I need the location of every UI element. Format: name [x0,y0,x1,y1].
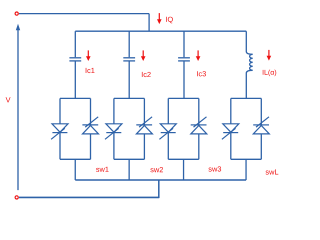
switch sw2: bottom rail [114,158,144,160]
label Ic2 [142,72,151,77]
current arrow IL [267,50,272,61]
thyristor swLb (reverse) [253,98,269,159]
capacitor C2 [123,31,135,98]
current arrow Ic2 [141,50,146,61]
wire: bottom return [19,196,159,198]
thyristor sw3a (forward) [159,98,176,159]
switch swL: bottom rail [231,158,261,160]
switch swL: stub to bus [245,159,247,180]
switch sw3: stub to bus [183,159,185,180]
node: top input terminal [15,12,18,15]
switch sw1: top rail [60,97,91,99]
switch sw1: bottom rail [60,158,91,160]
capacitor C3 [178,31,190,98]
wire: top feeder [19,13,149,15]
current arrow IQ [157,13,162,24]
source V arrow [16,24,20,190]
current arrow Ic3 [196,50,201,61]
label Ic3 [197,71,206,76]
wire: top bus [75,30,246,32]
label V [6,97,11,102]
switch sw2: stub to bus [128,159,130,180]
label swL [266,169,279,174]
switch swL: top rail [231,97,261,99]
switch sw3: bottom rail [168,158,199,160]
wire: bus-to-return vertical [158,180,160,198]
switch sw1: stub to bus [74,159,76,180]
inductor L [246,31,252,98]
label sw2 [150,167,163,172]
node: bottom input terminal [15,196,18,199]
wire: IQ drop [148,14,150,32]
thyristor sw2b (reverse) [136,98,152,159]
current arrow Ic1 [86,50,91,61]
capacitor C1 [69,31,81,98]
thyristor sw3b (reverse) [191,98,207,159]
label IL(alpha) [263,70,276,77]
thyristor sw2a (forward) [105,98,122,159]
wire: switch bus [75,179,246,181]
thyristor sw1a (forward) [51,98,68,159]
label Ic1 [86,68,95,73]
thyristor sw1b (reverse) [82,98,98,159]
switch sw3: top rail [168,97,199,99]
label sw1 [96,167,109,172]
label IQ [166,17,173,24]
switch sw2: top rail [114,97,144,99]
label sw3 [209,166,222,171]
thyristor swLa (forward) [222,98,239,159]
